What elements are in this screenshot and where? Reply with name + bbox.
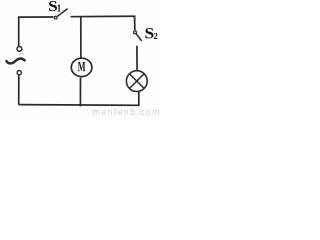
- wire bottom-left up to AC source: [18, 75, 20, 104]
- AC source tilde: [7, 59, 25, 64]
- AC source terminal upper: [17, 47, 22, 52]
- AC source terminal lower: [17, 71, 21, 75]
- switch S1: [54, 9, 67, 19]
- watermark manfen5.com: [93, 108, 159, 115]
- motor circle U=M: [71, 58, 92, 76]
- wire lamp to bottom-right corner: [19, 92, 139, 106]
- wire middle branch bottom: [79, 78, 81, 107]
- wire S1 to top-right corner down to S2: [71, 16, 135, 30]
- wire S2 to lamp: [136, 46, 138, 71]
- wire middle branch top: [80, 17, 82, 58]
- lamp L: [126, 71, 147, 92]
- wire top-left corner to S1: [19, 17, 54, 47]
- switch S2: [134, 31, 142, 41]
- label M: [78, 62, 85, 71]
- label S2: [145, 28, 157, 39]
- label S1: [49, 1, 61, 12]
- scan smudge: [19, 53, 25, 56]
